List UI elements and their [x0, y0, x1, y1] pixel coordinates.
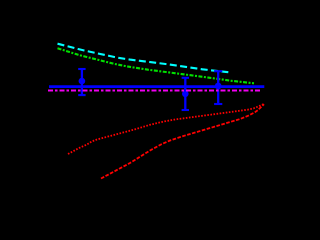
- blue error bar 3: [214, 71, 222, 104]
- red dotted upper curve: [68, 104, 264, 154]
- blue solid horizontal line: [49, 85, 264, 88]
- magenta dash-dot horizontal line: [48, 90, 262, 92]
- blue error bar 2: [182, 78, 189, 110]
- red dashed lower curve: [101, 104, 264, 178]
- cyan dashed model curve: [58, 44, 232, 73]
- green dash-dot model curve: [58, 48, 255, 83]
- blue error bar 1: [78, 69, 85, 95]
